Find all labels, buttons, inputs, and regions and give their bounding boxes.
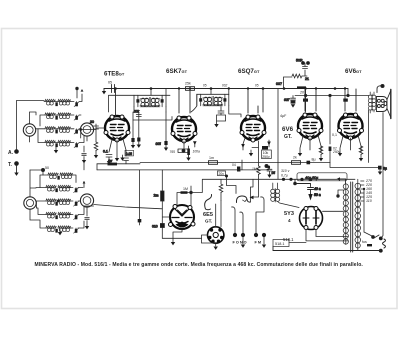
osc coil row 4 bbox=[46, 226, 79, 233]
osc coil row 1 wiring bbox=[36, 187, 83, 189]
power transformer core bbox=[351, 182, 353, 252]
V4 cathode network bbox=[300, 135, 321, 153]
screen rail y179 bbox=[202, 178, 355, 193]
V1 left resistor to ground bbox=[94, 142, 98, 155]
agc takeoff cap bbox=[82, 146, 86, 160]
osc coil row 4 wiring bbox=[30, 207, 87, 228]
V5 cathode resistor bbox=[359, 146, 363, 158]
long osc to right wire bbox=[94, 205, 163, 209]
svg-text:6E5: 6E5 bbox=[203, 212, 213, 218]
switch feed staircase bbox=[227, 160, 254, 202]
avc line left with cap 05 bbox=[84, 159, 140, 170]
svg-text:8µ: 8µ bbox=[312, 158, 316, 162]
svg-text:fus: fus bbox=[362, 240, 367, 244]
agc arrow bbox=[82, 160, 86, 163]
antenna coil row 4 bbox=[45, 140, 79, 147]
svg-text:05: 05 bbox=[255, 84, 259, 88]
svg-text:MINERVA RADIO - Mod. 516/1: MINERVA RADIO - Mod. 516/1 - Media e tre… bbox=[35, 262, 364, 268]
fm switch wire bbox=[243, 179, 259, 201]
osc block ground arrow bbox=[85, 226, 89, 229]
fuse label bbox=[362, 240, 372, 246]
mains switch bbox=[364, 232, 379, 238]
bus bypass cap to ground bbox=[104, 85, 115, 93]
svg-text:6V6GT: 6V6GT bbox=[345, 68, 362, 75]
filter cap feed arrow above 5Y3 bbox=[295, 179, 321, 200]
svg-text:110: 110 bbox=[366, 199, 372, 203]
phono ground arrows bbox=[241, 245, 245, 248]
earth lead from T bbox=[16, 166, 18, 173]
V5 grid lead bbox=[345, 89, 356, 112]
svg-text:0.1: 0.1 bbox=[103, 150, 108, 154]
svg-text:05: 05 bbox=[203, 84, 207, 88]
svg-text:50 a: 50 a bbox=[314, 193, 321, 197]
earth symbol bbox=[14, 173, 18, 176]
B+ line right area bbox=[277, 89, 279, 180]
bus ground arrow bbox=[102, 91, 106, 94]
V2 grid lead bbox=[179, 89, 190, 114]
svg-text:1M: 1M bbox=[252, 167, 257, 171]
cap ground bbox=[291, 104, 295, 107]
padder feed vertical bbox=[138, 170, 142, 225]
svg-text:0.05: 0.05 bbox=[126, 152, 132, 156]
IFT2 diode load network bbox=[217, 107, 226, 125]
tube V4 6V6 bbox=[297, 113, 323, 140]
power transformer secondary winding bbox=[355, 179, 361, 248]
svg-text:21: 21 bbox=[305, 77, 309, 81]
svg-text:5Y3: 5Y3 bbox=[284, 211, 294, 217]
tuning gang section 1 (left circle) bbox=[23, 124, 35, 136]
osc gang section 1 bbox=[24, 197, 36, 209]
osc coil row 2 wiring bbox=[36, 200, 80, 208]
resistor 25k on bus bbox=[185, 82, 195, 91]
cathode shared labels bbox=[332, 133, 337, 137]
V4 ground bbox=[298, 153, 302, 156]
magic eye left wiring bbox=[152, 170, 170, 239]
svg-text:50R: 50R bbox=[296, 59, 303, 63]
speaker bbox=[377, 90, 391, 119]
svg-text:007: 007 bbox=[284, 98, 290, 102]
svg-text:250v: 250v bbox=[262, 155, 270, 159]
cathode cap column c bbox=[156, 112, 168, 148]
resistor 2k on mid bus bbox=[292, 156, 301, 165]
tube V5 6V6 bbox=[338, 113, 364, 140]
svg-text:310 v: 310 v bbox=[281, 169, 290, 173]
screen dropper cap 02 250v bbox=[329, 147, 341, 163]
svg-text:765: 765 bbox=[170, 150, 176, 154]
svg-text:6V6: 6V6 bbox=[282, 126, 294, 133]
antenna coil row 1 wiring bbox=[44, 87, 83, 101]
V1 cathode ground arrows bbox=[107, 161, 111, 164]
tube V3 6SQ7GT bbox=[240, 115, 266, 142]
screen cap column b bbox=[133, 110, 141, 145]
terminal A bbox=[8, 149, 19, 156]
svg-text:6SQ7GT: 6SQ7GT bbox=[238, 68, 260, 75]
V3 label 10k 250v bbox=[262, 150, 272, 159]
phono pickup curl 1 bbox=[205, 195, 212, 210]
bus cap 20 (thick bar) bbox=[297, 86, 306, 94]
svg-text:010: 010 bbox=[152, 225, 158, 229]
antenna coil row 4 wiring bbox=[30, 129, 88, 143]
osc wire gang1 bbox=[30, 170, 36, 197]
svg-text:1w: 1w bbox=[108, 159, 113, 163]
OT B+ feed wire bbox=[295, 89, 369, 145]
svg-text:04: 04 bbox=[232, 163, 236, 167]
svg-text:6,7µ: 6,7µ bbox=[281, 174, 288, 178]
svg-text:100a: 100a bbox=[193, 150, 201, 154]
svg-text:40 a: 40 a bbox=[314, 187, 321, 191]
mid area junction dots bbox=[267, 166, 303, 181]
V3 below network bbox=[241, 138, 271, 166]
V1 grid lead from bus bbox=[115, 89, 117, 117]
svg-text:518.1: 518.1 bbox=[275, 242, 285, 246]
V1 left side network caps bbox=[90, 120, 105, 142]
socket ground bbox=[214, 247, 218, 250]
osc coil row 2 bbox=[46, 199, 79, 206]
label 310v bbox=[281, 169, 290, 178]
antenna mid-row trimmers bbox=[55, 102, 57, 147]
tiny labels on bus bbox=[203, 84, 259, 88]
svg-text:20v: 20v bbox=[219, 172, 225, 176]
svg-text:250v: 250v bbox=[332, 150, 341, 154]
coupling cap to ground bbox=[284, 96, 296, 104]
svg-text:05: 05 bbox=[108, 81, 112, 85]
magic eye bottom ground bbox=[173, 229, 182, 242]
antenna coil row 1 bbox=[45, 99, 79, 106]
osc mid-row trimmers bbox=[55, 176, 59, 233]
mains plug prongs bbox=[379, 237, 383, 253]
V2 ground arrows bbox=[188, 156, 190, 158]
svg-text:20k: 20k bbox=[133, 110, 140, 114]
IFT2 network ground bbox=[214, 124, 218, 127]
filter choke bbox=[271, 183, 299, 208]
coupling cap to switch bbox=[232, 163, 240, 172]
junction dots on bus bbox=[114, 87, 346, 90]
V2 cathode resistor 100k bbox=[170, 149, 201, 156]
svg-text:4µF: 4µF bbox=[280, 114, 287, 118]
V1 cathode bypass cap bbox=[103, 150, 112, 162]
eye grid cap bar bbox=[181, 191, 188, 194]
IF transformer 2 bbox=[197, 94, 229, 106]
grid resistor above socket bbox=[219, 184, 223, 201]
tuning gang section 2 (right circle) bbox=[80, 123, 93, 136]
V1 cathode leads down bbox=[109, 139, 126, 158]
IF transformer 1 bbox=[134, 95, 166, 107]
V2 cathode network bbox=[178, 141, 189, 156]
heater wire to 5Y3 bbox=[323, 210, 344, 212]
V1 right cap to osc bbox=[124, 150, 134, 164]
speaker top hook wire bbox=[377, 84, 384, 92]
mid bus wire y162 bbox=[140, 162, 330, 164]
V4 grid lead bbox=[305, 89, 316, 111]
svg-text:005: 005 bbox=[156, 142, 162, 146]
osc coil row 3 bbox=[46, 212, 79, 219]
plate cap blob V5 bbox=[343, 99, 348, 102]
heater tap lead left bbox=[337, 190, 344, 197]
socket wiring bbox=[202, 179, 222, 246]
antenna block ground bbox=[55, 147, 57, 151]
svg-text:1M: 1M bbox=[183, 187, 188, 191]
plate cap blob V4 bbox=[303, 99, 308, 102]
mains voltage taps labels bbox=[365, 179, 372, 203]
IFT1 leads bbox=[109, 89, 171, 113]
svg-text:50: 50 bbox=[45, 166, 49, 170]
svg-text:20: 20 bbox=[299, 91, 304, 95]
osc block ground cap bbox=[85, 212, 89, 226]
wire to socket ground bbox=[162, 237, 201, 239]
svg-text:6TE8GT: 6TE8GT bbox=[104, 70, 125, 77]
phono pickup curl 2 bbox=[236, 196, 250, 203]
V5 cathode network bbox=[340, 135, 361, 153]
svg-text:T.: T. bbox=[8, 162, 13, 168]
label box 518.1 bbox=[273, 240, 289, 247]
IFT2 leads bbox=[191, 89, 241, 118]
V3 plate resistor bbox=[252, 166, 260, 179]
cap 8u black on mid bus bbox=[307, 158, 316, 165]
antenna coil row 3 bbox=[45, 127, 79, 134]
svg-text:F M: F M bbox=[255, 241, 262, 245]
svg-text:8µ: 8µ bbox=[383, 167, 387, 171]
V3 grid lead bbox=[248, 89, 263, 114]
OT secondary drop bbox=[369, 110, 384, 238]
osc coil row 1 bbox=[46, 185, 79, 192]
IFT1 avc return wire bbox=[133, 112, 172, 120]
svg-text:4: 4 bbox=[288, 218, 291, 223]
svg-text:007: 007 bbox=[276, 82, 282, 86]
osc coil row 3 wiring bbox=[36, 206, 93, 215]
antenna coil row 2 bbox=[45, 113, 79, 120]
svg-text:1m: 1m bbox=[209, 156, 214, 160]
phono terminal wires bbox=[232, 197, 265, 244]
V4 cathode resistor bbox=[319, 146, 323, 158]
osc grid feed arrow up bbox=[83, 181, 86, 188]
rectifier tube 5Y3 bbox=[300, 207, 323, 230]
antenna coil row 3 wiring bbox=[36, 129, 94, 139]
transformer top arrow lead bbox=[337, 177, 346, 184]
filter cap can bbox=[297, 173, 347, 181]
osc row4 ground bbox=[59, 230, 61, 233]
5Y3 plate wiring bbox=[306, 230, 348, 241]
label box 20v bbox=[218, 171, 229, 178]
right 8u cap to ground bbox=[330, 163, 387, 172]
svg-text:A.: A. bbox=[8, 150, 14, 156]
feedback resistor network top right bbox=[276, 59, 310, 89]
svg-text:GT.: GT. bbox=[205, 219, 212, 224]
V2 right lead arrow bbox=[193, 141, 197, 147]
svg-text:0,1: 0,1 bbox=[332, 133, 337, 137]
transformer tap leads bbox=[361, 181, 364, 201]
power transformer primary winding bbox=[343, 184, 348, 245]
svg-text:2m: 2m bbox=[154, 194, 159, 198]
resistor 1m on mid bus bbox=[209, 156, 218, 164]
osc coil row 0 bbox=[48, 173, 73, 179]
svg-text:25k: 25k bbox=[185, 82, 191, 86]
screen cap column a bbox=[131, 120, 134, 145]
svg-text:05: 05 bbox=[272, 171, 276, 175]
tube V2 6SK7GT bbox=[171, 116, 197, 143]
wire A to coil block bbox=[17, 101, 45, 150]
osc coil row 0 wiring bbox=[30, 168, 76, 187]
volume rail y170 bbox=[97, 169, 269, 171]
svg-text:40µ 50µ: 40µ 50µ bbox=[305, 176, 318, 180]
antenna coil row 2 wiring bbox=[30, 112, 82, 126]
svg-text:30: 30 bbox=[90, 120, 94, 124]
bottom bus wire bbox=[273, 247, 381, 251]
svg-text:6SK7GT: 6SK7GT bbox=[166, 68, 188, 75]
tap select dot bbox=[363, 188, 365, 232]
ground arrow below V1 cathode bbox=[122, 155, 124, 158]
gang to mixer long wire bbox=[94, 129, 97, 131]
magic eye tube 6E5 bbox=[169, 205, 196, 230]
top B+ bus bbox=[104, 88, 348, 90]
socket diagram bbox=[208, 227, 224, 243]
terminal T bbox=[8, 161, 19, 168]
magic eye top wiring bbox=[177, 186, 202, 206]
V5 ground bbox=[338, 153, 342, 156]
svg-text:2k: 2k bbox=[293, 156, 297, 160]
transformer bottom lead bbox=[289, 243, 358, 251]
tube V1 6TE8GT bbox=[104, 115, 130, 142]
V3 junction and cap bbox=[265, 164, 275, 175]
phono terminal dots bbox=[233, 233, 266, 237]
V1 left ground bbox=[94, 155, 98, 158]
svg-text:GT.: GT. bbox=[284, 134, 292, 140]
mains cord squiggle bbox=[383, 239, 386, 248]
osc gang section 2 bbox=[80, 194, 93, 207]
svg-text:002: 002 bbox=[222, 84, 228, 88]
output transformer bbox=[368, 92, 376, 113]
svg-text:F O N O: F O N O bbox=[233, 241, 247, 245]
